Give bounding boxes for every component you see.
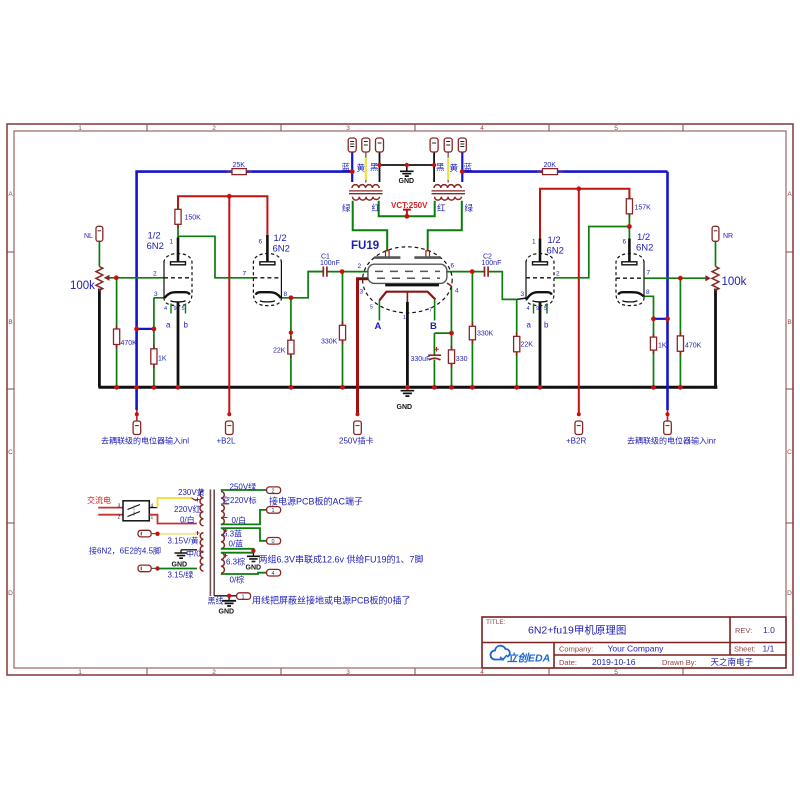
speaker connector 0 left [376,138,384,152]
power transformer T3 secondary coil 1 (HV) [221,492,224,525]
wire: blue drop 8ohm right OT [461,152,463,182]
svg-text:2: 2 [212,669,216,676]
wire: thick 250V feed to FU19 pin3 [358,279,369,415]
svg-text:230V黄: 230V黄 [178,487,205,497]
wire: blue tap to right cathode node [654,318,668,320]
svg-text:两组6.3V串联成12.6v 供给FU19的1、7脚: 两组6.3V串联成12.6v 供给FU19的1、7脚 [259,554,424,565]
svg-text:6: 6 [623,239,627,246]
connector +B2R [575,421,583,435]
svg-text:NL: NL [84,233,93,240]
wire: red B+ rail right [540,189,629,239]
svg-text:3: 3 [346,125,350,132]
svg-text:2: 2 [272,488,275,494]
connector PSU 4 [267,569,281,576]
svg-text:去耦联级的电位器输入inl: 去耦联级的电位器输入inl [101,436,189,446]
power transformer T3 secondary coil 2 (6.3 blue) [221,528,224,548]
wire: blue drop from 8ohm connector left OT [351,152,353,182]
triode V2b grid [616,277,644,279]
connector inr [667,410,669,421]
tap 220V stub [221,503,229,505]
FU19 pin4 lead [447,283,452,286]
resistor 1K left [151,349,157,364]
svg-text:150K: 150K [185,215,202,222]
wire: right OT red primary to VCT node [407,201,435,217]
svg-text:Your Company: Your Company [608,644,665,654]
resistor lead stubs [117,172,681,368]
svg-text:2: 2 [358,263,362,270]
wire: tube1 plate / 150K leads [177,196,179,209]
svg-text:6: 6 [259,239,263,246]
svg-text:5: 5 [614,125,618,132]
triode V1b envelope [253,254,281,306]
svg-text:b: b [184,321,189,330]
frame column numbers bottom [78,669,618,676]
svg-text:3: 3 [360,289,364,296]
svg-text:REV:: REV: [735,626,752,635]
svg-text:NR: NR [723,233,733,240]
wire: FU19 cathode RC node [434,333,451,387]
wire: FU19 center pin to bus [406,302,409,387]
ground GND heater CT [180,550,182,553]
svg-text:250V绿: 250V绿 [230,483,257,492]
svg-text:2: 2 [118,515,121,521]
svg-text:GND: GND [397,404,413,411]
capacitor C1 [308,271,323,273]
ground GND 6.3 junction [252,553,254,556]
wire 3.15V yellow [158,533,198,535]
svg-text:250V插卡: 250V插卡 [339,436,374,446]
frame column ticks bottom [147,668,683,675]
wire 0white to connector 1 [221,510,267,525]
svg-text:0/白: 0/白 [180,515,195,525]
transformer T2 primary coil [435,197,462,200]
svg-text:2019-10-16: 2019-10-16 [592,657,636,667]
power transformer T3 secondary coil 3 (6.3 brown) [221,553,224,573]
svg-text:a: a [166,321,171,330]
svg-text:Sheet:: Sheet: [734,645,756,654]
svg-text:0/棕: 0/棕 [230,575,245,585]
wire 0blue / 6.3brown junction to GND [221,549,254,553]
svg-text:A: A [8,191,13,198]
wire AC lines [98,508,123,515]
svg-text:1: 1 [403,315,406,321]
sheet frame inner border [14,131,786,668]
speaker connector 4ohm left [362,138,370,152]
wire heater center tap to GND [181,549,197,551]
svg-text:黑线: 黑线 [208,596,224,606]
triode V1b grid [253,277,281,279]
svg-text:蓝: 蓝 [342,162,351,172]
svg-text:6N2: 6N2 [147,241,164,252]
wire: right pot bottom to bus [716,289,718,388]
svg-text:3: 3 [118,504,121,510]
power transformer T3 primary coil 1 [200,491,203,526]
svg-text:GND: GND [172,562,188,569]
connector heater L1 [138,530,151,537]
wire: left OT green primary to FU19 left plate [353,201,388,251]
svg-text:6N2: 6N2 [273,244,290,255]
svg-text:1.0: 1.0 [763,625,775,635]
svg-text:Date:: Date: [559,658,577,667]
frame row ticks left [7,252,14,523]
capacitor 330uF polarized [428,354,441,356]
triode V2a cathode [527,292,552,299]
svg-text:330K: 330K [477,331,494,338]
svg-text:去耦联级的电位器输入inr: 去耦联级的电位器输入inr [627,436,716,446]
svg-text:中/0: 中/0 [186,549,201,559]
wire: black drop 0 left OT + 0-0 rail [380,152,435,182]
wire: FU19 cathode pin4 down to RC [450,286,452,333]
resistor 25K [232,169,246,175]
connector 250V [354,421,362,435]
svg-text:0/蓝: 0/蓝 [229,539,244,549]
svg-text:C: C [787,449,792,456]
resistor 330K right [469,326,475,340]
FU19 screen box [368,264,447,283]
svg-text:100nF: 100nF [482,260,502,267]
connector NL [96,226,103,241]
speaker connector 8ohm right [458,138,466,152]
svg-text:470K: 470K [121,340,138,347]
FU19 heater pin A stub [378,300,380,320]
svg-text:1/2: 1/2 [274,233,287,244]
FU19 grid dashes row2 [377,277,440,279]
wire 250V green secondary [221,489,267,491]
wire 3.15V green [158,568,198,570]
svg-text:20K: 20K [544,162,557,169]
resistor 157K [626,199,632,214]
wire switch to transformer red 220V [149,515,197,524]
svg-text:6N2+fu19甲机原理图: 6N2+fu19甲机原理图 [528,624,626,637]
resistor 330 [448,350,454,364]
svg-text:330K: 330K [321,339,338,346]
wire: red +B2R drop [578,189,580,415]
wire: 157K bottom to tube4 plate and tube3 grid coupling [554,214,629,278]
svg-text:用线把屏蔽丝接地或电源PCB板的0插了: 用线把屏蔽丝接地或电源PCB板的0插了 [252,595,411,606]
wire: red +B2L drop [228,196,230,415]
triode V2a heater pins [534,304,548,314]
wire: blue feedback rail right [462,172,667,410]
svg-text:3: 3 [521,291,525,298]
triode V2b plate [628,239,631,262]
svg-text:8: 8 [646,289,650,296]
svg-text:b: b [544,321,549,330]
ground symbol below bus center [401,391,415,396]
svg-text:a: a [527,321,532,330]
svg-text:1K: 1K [658,343,667,350]
svg-text:红: 红 [437,203,446,213]
FU19 pin3 lead [358,278,368,280]
svg-text:Company:: Company: [559,645,593,654]
svg-text:1: 1 [272,508,275,514]
triode V1a grid [164,277,192,279]
FU19 plate bars [374,256,441,259]
ground GND top center [406,165,408,171]
triode V2a grid [526,277,554,279]
svg-text:8: 8 [284,291,288,298]
svg-text:4: 4 [527,306,530,312]
switch SW [123,501,149,521]
svg-text:4: 4 [480,669,484,676]
resistor 22K left [288,340,294,354]
svg-text:7: 7 [429,308,432,314]
potentiometer 100k right [712,267,719,291]
svg-text:2: 2 [153,271,157,278]
connector PSU shield [237,593,251,600]
svg-text:330uF: 330uF [411,356,431,363]
svg-text:7: 7 [243,271,247,278]
svg-text:9: 9 [174,306,177,312]
wire switch to transformer yellow 230V [149,507,157,509]
resistor 20K [543,169,558,175]
svg-text:GND: GND [246,565,262,572]
wire: 470K right leads [679,278,681,387]
wire: yellow drop 4ohm right OT [447,157,449,181]
frame column numbers top [78,125,618,132]
wire shield to connector [214,595,236,597]
svg-text:9: 9 [536,306,539,312]
triode V1a heater bar [171,301,186,302]
FU19 plate pin rects [386,251,390,258]
svg-text:0/白: 0/白 [232,515,247,525]
svg-text:1: 1 [78,669,82,676]
resistor 1K right [650,337,656,350]
wire: C2 to tube3 cathode [489,272,517,300]
triode V1a heater pins [171,304,186,314]
svg-text:7: 7 [647,270,651,277]
wire: left input pot top [98,241,100,266]
potentiometer 100k left [96,267,103,291]
triode V1a cathode [165,292,190,298]
svg-text:6: 6 [451,263,455,270]
transformer T1 secondary coil left [352,185,379,188]
wire: C1 to FU19 grid pin2 [328,271,369,273]
connector +B2L [226,421,234,435]
FU19 envelope [363,247,453,313]
svg-text:GND: GND [399,178,415,185]
connector PSU 2 [267,487,281,494]
FU19 heater pin B stub [434,300,436,321]
wire: tube4 grid to right wiper [644,277,708,279]
svg-text:3.15V/黄: 3.15V/黄 [168,536,199,546]
PSU junction dots [155,532,255,598]
connector PSU 0 [267,538,281,545]
svg-text:黄: 黄 [357,163,366,173]
svg-text:4: 4 [151,504,154,510]
svg-text:3: 3 [154,291,158,298]
FU19 cathode bar [385,284,439,287]
wire: right pot top [715,241,717,266]
svg-text:1K: 1K [158,356,167,363]
svg-text:天之南电子: 天之南电子 [711,657,754,667]
svg-text:22K: 22K [273,348,286,355]
svg-text:黑: 黑 [436,162,445,172]
svg-text:D: D [8,590,13,597]
junction dots output transformer area [350,163,465,219]
svg-text:C: C [8,449,13,456]
svg-text:3: 3 [346,669,350,676]
triode V1a plate [177,238,180,262]
wire 0brown to connector 4 [221,573,267,574]
svg-text:3.15/绿: 3.15/绿 [168,571,194,580]
wire: 22K right leads [516,299,518,387]
speaker connector 0 right [430,138,438,152]
TITLE BLOCK [482,617,786,668]
svg-text:1: 1 [532,239,536,246]
svg-text:25K: 25K [233,162,246,169]
power transformer T3 core [210,490,214,597]
svg-text:2: 2 [556,271,560,278]
svg-text:1: 1 [170,239,174,246]
svg-text:红: 红 [372,203,381,213]
svg-text:绿: 绿 [342,203,351,213]
svg-text:5: 5 [182,306,185,312]
wire 6.3blue to connector 0 [221,528,267,541]
frame row letters left [8,191,13,597]
svg-text:交流电: 交流电 [87,495,111,505]
svg-text:+B2L: +B2L [217,437,236,446]
svg-text:5: 5 [544,306,547,312]
triode V2b heater bar [622,301,637,302]
wire: coupling tube1 plate to tube2 grid [178,236,253,277]
MAIN SCHEMATIC [70,138,786,668]
capacitor C2 [485,267,489,277]
resistor 470K right [677,336,683,351]
svg-text:4: 4 [164,306,167,312]
triode V2b cathode [618,292,643,296]
svg-text:22K: 22K [521,342,534,349]
svg-text:TITLE:: TITLE: [486,619,506,626]
FU19 grid dashes row1 [375,270,440,272]
svg-text:蓝: 蓝 [464,162,473,172]
svg-text:空220V标: 空220V标 [222,495,257,505]
svg-text:接6N2，6E2的4.5脚: 接6N2，6E2的4.5脚 [89,546,161,556]
wire: 330K right leads [471,272,473,388]
svg-text:B: B [430,321,437,332]
wire: right OT green primary to FU19 right plate [428,201,462,251]
frame row ticks right [786,252,793,523]
wire: tube2 cathode to 22K to bus [290,298,292,388]
svg-text:4: 4 [455,288,459,295]
svg-text:0: 0 [272,539,275,545]
transformer T2 core [432,191,466,194]
svg-text:220V红: 220V红 [174,504,201,514]
svg-text:A: A [375,321,382,332]
polarity marks [196,498,228,558]
connector heater L2 [138,565,151,572]
svg-text:接电源PCB板的AC端子: 接电源PCB板的AC端子 [269,496,363,507]
triode V2a envelope [526,254,554,306]
svg-text:黄: 黄 [450,163,459,173]
connector PSU 1 [267,507,281,514]
svg-text:470K: 470K [685,343,702,350]
frame column ticks top [147,124,683,131]
svg-text:黑: 黑 [370,162,379,172]
wire: 470K left leads [116,278,118,388]
wire: tube4 cathode to 1K right [644,296,654,387]
transformer T1 primary coil [353,197,380,200]
RESISTORS [114,169,684,364]
triode V1b plate [266,235,269,262]
svg-text:B: B [8,319,12,326]
triode V1b cathode [256,292,281,298]
svg-text:100k: 100k [722,276,747,288]
svg-text:1: 1 [242,594,245,600]
svg-text:5: 5 [370,305,373,311]
wire: blue feedback rail left [137,172,353,410]
svg-text:330: 330 [456,356,468,363]
svg-text:A: A [787,191,792,198]
wire: left OT red primary to VCT node [379,201,407,217]
svg-text:157K: 157K [635,205,652,212]
power transformer T3 primary coil 2 (3.15V) [200,533,203,553]
triode V2b envelope [616,254,644,306]
triode V2a plate [539,239,542,262]
svg-text:+B2R: +B2R [566,437,586,446]
svg-text:Drawn By:: Drawn By: [662,658,697,667]
ground GND shield [228,596,230,601]
svg-text:B: B [787,319,791,326]
resistor 150K [175,209,181,224]
wire: left wiper to tube1 grid [105,277,165,279]
svg-text:6.3棕: 6.3棕 [226,557,245,567]
svg-text:1/2: 1/2 [637,232,650,243]
svg-text:VCT:250V: VCT:250V [391,201,428,210]
svg-text:100nF: 100nF [320,260,340,267]
resistor 22K right [514,336,520,351]
svg-text:5: 5 [614,669,618,676]
triode V1a envelope [164,254,192,306]
wire: tube2 cathode node [281,272,322,298]
wire: yellow drop 4ohm left OT [365,157,367,181]
svg-text:1/1: 1/1 [763,644,775,654]
svg-text:100k: 100k [70,280,95,292]
svg-text:2: 2 [212,125,216,132]
resistor 470K left [114,329,120,345]
triode V2a heater bar [533,301,548,302]
svg-text:6.3蓝: 6.3蓝 [223,529,242,539]
speaker connector 8ohm left [348,138,356,152]
svg-text:6N2: 6N2 [547,246,564,257]
wire: left pot bottom to bus [98,289,101,388]
speaker connector 4ohm right [444,138,452,152]
wire: blue tap to left cathode node [137,328,154,330]
svg-text:GND: GND [219,609,235,616]
FU19 heater roof [379,292,435,301]
svg-text:1: 1 [78,125,82,132]
connector NR [712,226,719,241]
svg-text:4: 4 [480,125,484,132]
svg-text:FU19: FU19 [351,240,379,252]
wire: red B+ rail left [178,196,267,235]
connector inl [136,410,138,421]
junction dots main [114,186,683,416]
svg-text:4: 4 [272,571,275,577]
svg-text:1/2: 1/2 [548,235,561,246]
wire: FU19 grid pin6 to C2 [446,271,484,273]
transformer T1 core [349,191,383,194]
svg-text:绿: 绿 [465,203,474,213]
svg-text:立创EDA: 立创EDA [507,652,550,665]
resistor 330K left [339,325,345,340]
ground bus [99,386,718,389]
wire: 330K left leads [342,272,344,388]
triode V1b heater bar [260,301,275,302]
svg-text:1/2: 1/2 [148,231,161,242]
EasyEDA logo [491,646,510,660]
svg-text:6N2: 6N2 [636,243,653,254]
sheet frame outer border [7,124,793,675]
